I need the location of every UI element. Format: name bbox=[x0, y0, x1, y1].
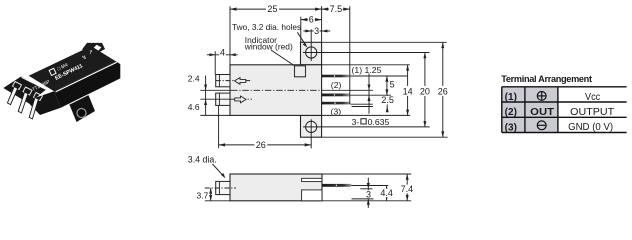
side bottom notch bbox=[302, 190, 322, 201]
svg-text:OUT: OUT bbox=[530, 107, 555, 118]
bottom hole crosshair bbox=[303, 126, 430, 128]
svg-text:2.4: 2.4 bbox=[188, 74, 200, 84]
svg-text:3: 3 bbox=[366, 190, 371, 200]
svg-text:3-: 3- bbox=[352, 117, 360, 127]
side body outline bbox=[230, 174, 322, 201]
svg-text:25: 25 bbox=[267, 4, 277, 14]
side snout barrel bbox=[216, 181, 230, 194]
left end cap (3D) bbox=[3, 77, 46, 104]
dimension 26 (overall height) bbox=[436, 42, 449, 137]
side body bottom edge extension bbox=[322, 200, 411, 202]
body bottom edge extension left bbox=[200, 114, 230, 116]
dimension 6 bbox=[301, 15, 322, 25]
terminal 2 bbox=[322, 94, 350, 97]
terminal 3 bbox=[322, 102, 351, 105]
optical axis 1 bbox=[216, 80, 252, 82]
svg-text:OUTPUT: OUTPUT bbox=[570, 107, 615, 118]
receive direction arrow glyph bbox=[235, 96, 246, 103]
front face (3D) bbox=[54, 61, 120, 107]
pin header highlights (3D) bbox=[13, 82, 22, 90]
pin 2 bbox=[18, 92, 28, 113]
dimension 4 bbox=[207, 47, 238, 57]
dimension 14 bbox=[401, 65, 414, 116]
pin 3 bbox=[29, 97, 38, 119]
svg-text:window (red): window (red) bbox=[244, 42, 293, 52]
lower-left body mass (3D) bbox=[27, 91, 61, 115]
leader to top hole bbox=[297, 32, 306, 45]
top-right mounting tab (3D) bbox=[82, 43, 105, 55]
svg-text:7.4: 7.4 bbox=[401, 184, 414, 194]
svg-text:4: 4 bbox=[220, 47, 225, 57]
svg-text:(2): (2) bbox=[331, 80, 342, 90]
white label text on top face (3D) bbox=[49, 57, 84, 83]
extension line body-right vertical bbox=[321, 6, 323, 42]
svg-text:4.6: 4.6 bbox=[188, 102, 200, 112]
svg-text:7.5: 7.5 bbox=[330, 4, 343, 14]
dimension 20 bbox=[419, 53, 432, 127]
extension line snout-corner vertical (to bottom dim) bbox=[218, 106, 220, 149]
dimension 3 bbox=[303, 26, 330, 36]
table grid lines bbox=[502, 86, 627, 88]
extension line flange-left vertical bbox=[300, 17, 302, 43]
leader to indicator window bbox=[271, 50, 294, 66]
svg-text:(2): (2) bbox=[505, 107, 517, 118]
svg-text:0.635: 0.635 bbox=[368, 117, 390, 127]
svg-text:6: 6 bbox=[309, 15, 314, 25]
svg-text:3: 3 bbox=[314, 26, 319, 36]
flange bottom edge extension bbox=[322, 136, 448, 138]
body bottom edge extension right bbox=[322, 114, 411, 116]
bottom mounting flange bbox=[301, 115, 322, 137]
top hole circle bbox=[306, 47, 317, 58]
svg-text:(1): (1) bbox=[505, 92, 517, 103]
center line bbox=[200, 89, 231, 91]
extension line body-left vertical bbox=[229, 6, 231, 65]
svg-text:Terminal Arrangement: Terminal Arrangement bbox=[501, 74, 592, 84]
dimension 3 (side) bbox=[360, 178, 372, 208]
svg-text:3.4 dia.: 3.4 dia. bbox=[188, 154, 217, 164]
dimension 7.5 bbox=[322, 4, 350, 14]
leader to side snout bbox=[213, 164, 224, 176]
extension line terminal-tip vertical bbox=[349, 6, 351, 104]
svg-text:3.7: 3.7 bbox=[196, 191, 208, 201]
bottom mounting ear (3D) bbox=[69, 94, 95, 122]
svg-text:26: 26 bbox=[256, 140, 266, 150]
extension line snout-tip vertical bbox=[214, 51, 216, 74]
dimension 2.5 bbox=[381, 95, 395, 112]
svg-text:(3): (3) bbox=[331, 106, 342, 116]
svg-text:20: 20 bbox=[420, 86, 430, 96]
terminal 1 bbox=[322, 75, 350, 78]
label 3-square0.635 bbox=[352, 117, 390, 127]
3D isometric sensor icon bbox=[3, 43, 120, 122]
dimension 2.4 / 4.6 shared line bbox=[188, 74, 207, 116]
table shading bbox=[502, 87, 558, 133]
emitter snout bbox=[216, 75, 230, 87]
indicator window square bbox=[295, 66, 306, 77]
pin 1 bbox=[7, 87, 17, 105]
receiver snout bbox=[216, 93, 230, 105]
emit direction arrow glyph bbox=[235, 78, 246, 85]
dimension 5 bbox=[385, 76, 394, 95]
top hole crosshair bbox=[303, 52, 429, 54]
svg-text:4.4: 4.4 bbox=[380, 188, 393, 198]
side mounting-tab slot bbox=[302, 178, 322, 181]
body top edge extension right bbox=[322, 64, 410, 66]
dimension 3.7 bbox=[196, 188, 212, 201]
dimension (1) 1.25 bbox=[352, 65, 382, 114]
dimension 26 (bottom width) bbox=[219, 140, 312, 150]
dimension 4.4 bbox=[380, 186, 394, 201]
svg-text:(1) 1.25: (1) 1.25 bbox=[352, 65, 382, 75]
side snout axis bbox=[205, 187, 236, 189]
side body bottom extension left bbox=[205, 200, 230, 202]
dimension 7.4 bbox=[400, 174, 414, 201]
side ref line for dim 3 bbox=[352, 198, 374, 200]
side body top edge extension bbox=[322, 173, 411, 175]
svg-text:26: 26 bbox=[438, 86, 448, 96]
optical axis 2 extension bbox=[200, 98, 231, 100]
svg-text:GND (0 V): GND (0 V) bbox=[568, 122, 613, 133]
svg-text:5: 5 bbox=[390, 80, 395, 90]
top face (3D) bbox=[29, 46, 116, 91]
dimension 25 bbox=[230, 4, 322, 14]
svg-text:14: 14 bbox=[403, 86, 413, 96]
top mounting flange bbox=[301, 42, 322, 65]
sensor body outline bbox=[230, 65, 322, 116]
svg-text:Vcc: Vcc bbox=[585, 92, 600, 103]
svg-text:(3): (3) bbox=[505, 122, 517, 133]
side terminal bbox=[322, 184, 351, 187]
svg-text:2.5: 2.5 bbox=[381, 95, 394, 105]
svg-text:Two, 3.2 dia. holes: Two, 3.2 dia. holes bbox=[232, 22, 301, 32]
edge highlight (3D) bbox=[56, 62, 117, 92]
bottom hole circle bbox=[306, 121, 317, 132]
flange top edge extension bbox=[322, 41, 447, 43]
